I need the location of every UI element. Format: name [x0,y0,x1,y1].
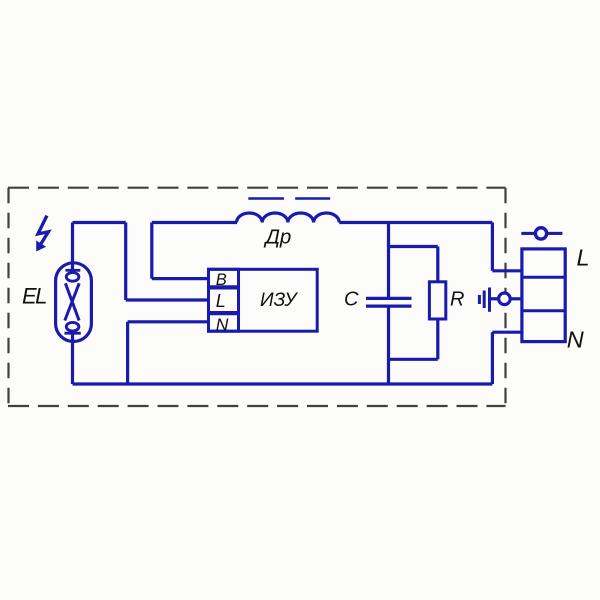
ground wire to circle [490,297,499,300]
dashed enclosure border bottom [8,405,506,407]
wire bus inductor to right drop [339,221,492,224]
ground symbol bar tall [488,288,491,312]
fuse terminal left lead [521,232,535,235]
wire N vertical to bottom bus [126,322,129,384]
dashed enclosure border right [504,188,506,406]
wire to ignitor B terminal [152,277,210,280]
wire to ignitor N terminal [128,320,210,323]
wire bottom bus up to N terminal block [491,332,494,384]
wire resistor to capacitor branch [389,358,438,361]
capacitor C plate 2 [366,305,412,308]
lamp bottom electrode circle [66,322,79,331]
fuse terminal right lead [548,232,563,235]
svg-text:N: N [567,326,584,352]
terminal block divider 2 [522,309,565,312]
lamp arc cross line 1 [65,283,79,320]
capacitor C plate 1 [366,297,412,300]
inductor Dr winding [236,213,339,223]
ignitor cell divider L/N [209,311,239,315]
wire lamp top to bus [73,221,126,224]
svg-text:L: L [216,291,226,311]
lightning symbol (high voltage arrow) [37,216,49,251]
wire vertical down to B row [150,223,153,279]
wire bus junction down to capacitor [387,223,390,298]
lamp top lead wire [71,223,74,271]
svg-text:Др: Др [264,225,292,248]
svg-text:ИЗУ: ИЗУ [260,290,298,311]
dashed enclosure border top [8,187,506,189]
inductor core dash 1 [248,197,284,200]
bottom bus wire [73,382,493,385]
fuse terminal circle [535,228,546,239]
wire to terminal block L [492,269,523,272]
ground terminal circle [499,293,511,305]
wire branch to resistor top [389,245,438,248]
inductor core dash 2 [295,197,330,200]
lamp arc cross line 2 [65,283,79,320]
svg-text:N: N [216,314,229,334]
terminal block divider 1 [522,276,565,279]
svg-text:R: R [450,289,464,311]
svg-text:EL: EL [22,284,46,309]
wire resistor top lead [436,247,439,282]
lamp top electrode circle [66,273,79,282]
svg-text:C: C [344,289,359,311]
lamp bottom electrode bar [65,332,81,335]
svg-text:L: L [577,244,590,270]
ignitor box IZU [209,269,318,331]
wire vertical down to L terminal block [491,223,494,271]
dashed enclosure border left [7,188,9,406]
ignitor terminal cells column [209,269,239,331]
wire to terminal block N [492,331,523,334]
ground circle wire to block [511,297,524,300]
wire capacitor to bottom bus [387,307,390,384]
svg-text:B: B [216,271,227,289]
lamp EL envelope [56,263,92,342]
ground symbol bar short [478,295,481,304]
lamp top electrode bar [66,269,81,272]
resistor R body [429,282,445,319]
lamp bottom lead wire [71,333,74,384]
ground symbol bar medium [483,291,486,309]
wire bus to B vertical [152,221,237,224]
wire resistor bottom lead [436,319,439,359]
wire vertical down to L row [124,223,127,301]
terminal block body [522,249,565,342]
ignitor cell divider B/L [209,285,239,289]
wire to ignitor L terminal [126,298,210,301]
